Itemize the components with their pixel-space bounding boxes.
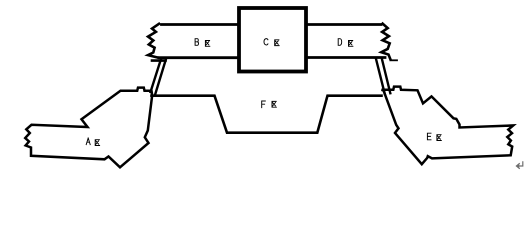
zone E wing outline — [382, 87, 514, 165]
wire: top bar right, top edge (zone D) — [306, 23, 381, 26]
zone F band outline — [152, 96, 382, 133]
strut left, outer line — [151, 59, 162, 92]
label zone F — [262, 101, 277, 108]
strut right, outer line — [382, 59, 391, 94]
wire: small tick below right bar end — [391, 59, 398, 61]
zone A wing outline — [25, 88, 152, 168]
break line at left end of top bar — [148, 24, 166, 61]
label zone A — [86, 138, 99, 146]
label zone D — [338, 39, 353, 47]
strut right, inner line — [376, 59, 385, 95]
label zone E — [427, 133, 441, 140]
zone C center box — [239, 8, 306, 72]
strut left, inner line — [155, 59, 166, 95]
paragraph return mark — [516, 162, 522, 169]
wire: top bar left, top edge (zone B) — [162, 23, 240, 26]
label zone C — [264, 39, 279, 46]
label zone B — [195, 39, 210, 47]
wire: top bar right, bottom edge (zone D) — [306, 56, 385, 59]
break line at right end of top bar — [381, 24, 390, 60]
wire: top bar left, bottom edge (zone B) — [159, 56, 239, 59]
